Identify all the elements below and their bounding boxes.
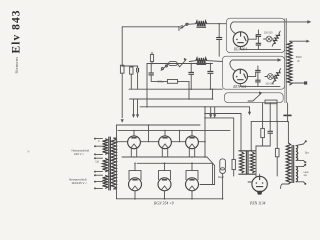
- pentode base: [257, 191, 263, 195]
- svg-text:220 V ≈: 220 V ≈: [74, 152, 84, 156]
- T1 primary group 3: [103, 175, 108, 188]
- wire: [287, 115, 289, 121]
- stage box 3: [224, 93, 283, 103]
- T1 core: [108, 137, 110, 191]
- wire twin stub: [188, 148, 190, 157]
- wire: [206, 23, 219, 25]
- potentiometer arrow: [253, 94, 261, 101]
- wire vertical x205: [204, 107, 206, 157]
- T2 bottom bar: [238, 173, 255, 175]
- resistor R6: [167, 80, 177, 84]
- arrow: [278, 58, 282, 62]
- node junction: [178, 26, 180, 28]
- wire bus y121: [251, 120, 287, 122]
- T3 bottom lead: [281, 184, 289, 189]
- T3 leads lower: [296, 166, 304, 168]
- resistor R7: [232, 159, 235, 169]
- T3 secondary upper: [296, 146, 298, 161]
- wire stub: [191, 191, 193, 199]
- wire top stub: [164, 131, 166, 136]
- V1 electrodes: [240, 32, 242, 37]
- svg-text:PEN 1134: PEN 1134: [249, 201, 266, 205]
- switch S2: [161, 68, 163, 70]
- wire: [287, 121, 289, 143]
- wire grid drop: [218, 24, 220, 38]
- svg-text:spr.: spr.: [304, 174, 308, 177]
- IF transformer core: [284, 18, 286, 103]
- wire vertical x212: [212, 89, 214, 99]
- node: [166, 63, 168, 65]
- T1 secondary leads: [113, 137, 116, 139]
- wire stub: [164, 163, 166, 170]
- rectifier tube V5: [186, 136, 199, 149]
- wire mid leads: [140, 141, 148, 143]
- wire mid lead: [198, 141, 205, 143]
- resistor R1 diagonal: [273, 33, 279, 43]
- svg-text:5000: 5000: [296, 55, 302, 59]
- terminal square: [290, 83, 292, 85]
- wire side lead: [128, 171, 130, 180]
- wire top stub: [133, 131, 135, 136]
- T3 primary winding: [286, 143, 290, 184]
- wire diagonal: [207, 157, 215, 165]
- wire interlink vertical: [148, 125, 150, 142]
- wire feed choke right: [250, 121, 252, 151]
- lamp LP2: [267, 74, 273, 80]
- T3 secondary lower: [296, 167, 298, 182]
- capacitor C8: [149, 72, 154, 74]
- wire coupling arc: [231, 22, 285, 34]
- wire: [240, 47, 242, 50]
- resistor R5 oval: [169, 62, 178, 66]
- svg-text:Regl.: Regl.: [217, 175, 224, 179]
- capacitor C2: [256, 34, 261, 36]
- heater arrow: [214, 107, 216, 116]
- wire: [248, 100, 253, 102]
- resistor R2 diagonal: [274, 71, 280, 81]
- wire: [116, 125, 118, 199]
- capacitor C6 grid: [207, 70, 213, 72]
- ground bar: [283, 114, 291, 116]
- wire: [218, 39, 220, 56]
- wire side lead: [170, 171, 172, 180]
- switch S1: [181, 26, 183, 28]
- svg-text:RGN 354 ×9: RGN 354 ×9: [153, 201, 174, 205]
- wire feed y117.9: [205, 117, 234, 119]
- wire bus y157: [122, 156, 207, 158]
- wire bus y107: [140, 106, 250, 108]
- wire: [214, 165, 216, 184]
- wire fuse to bus: [222, 174, 224, 199]
- rectifier tube V4: [159, 136, 172, 149]
- T3 core: [291, 145, 293, 183]
- wire stub: [164, 191, 166, 199]
- resistor R11 inline: [120, 65, 124, 73]
- capacitor C4: [255, 69, 260, 71]
- capacitor C3: [256, 42, 261, 44]
- wire choke to tube: [259, 174, 261, 176]
- node: [210, 63, 212, 65]
- paper speck: [27, 150, 29, 152]
- resistor R4: [150, 54, 153, 61]
- wire side lead: [158, 171, 160, 180]
- potentiometer P1: [180, 60, 186, 67]
- resistor R9: [275, 148, 279, 156]
- T1 tap leads: [95, 138, 102, 140]
- wire: [188, 23, 196, 26]
- wire: [287, 103, 289, 115]
- wire side lead: [185, 171, 187, 180]
- capacitor C1: [216, 37, 222, 39]
- heater arrow: [210, 107, 212, 116]
- wire stub: [134, 191, 136, 199]
- node: [190, 63, 192, 65]
- svg-text:110/125 V ≈: 110/125 V ≈: [72, 181, 88, 185]
- node: [133, 156, 135, 158]
- rectifier tube V6: [129, 178, 142, 191]
- heater arrow: [137, 99, 139, 116]
- T3 leads upper: [296, 144, 304, 146]
- rectifier tube V3: [128, 136, 141, 149]
- svg-text:100 000: 100 000: [264, 32, 273, 35]
- IF transformer winding: [287, 41, 292, 85]
- pentode V9: [252, 176, 267, 191]
- capacitor C7: [136, 68, 138, 73]
- node: [262, 121, 264, 123]
- wire drop from box3: [262, 103, 264, 122]
- T2 top bar: [238, 150, 255, 152]
- svg-text:REN 904: REN 904: [232, 85, 246, 89]
- svg-text:110: 110: [95, 161, 99, 164]
- arrow to bus: [121, 119, 124, 123]
- resistor R10: [265, 100, 277, 104]
- svg-text:Elv 843: Elv 843: [11, 10, 23, 53]
- choke L2 core: [197, 62, 206, 64]
- resistor R8: [261, 128, 265, 137]
- rectifier tube V8: [186, 178, 199, 191]
- wire vertical x147: [146, 64, 148, 107]
- wire coupling arc 2: [230, 60, 279, 71]
- capacitor C5: [255, 79, 260, 81]
- wire link bar: [159, 170, 171, 172]
- T2 core: [245, 151, 247, 174]
- wire link bar: [186, 170, 198, 172]
- stage box 1: [226, 18, 284, 52]
- wire left vertical upper: [121, 27, 123, 65]
- node: [146, 106, 148, 108]
- T2 right winding: [250, 152, 254, 173]
- wire twin stub: [130, 148, 132, 157]
- svg-text:Spr.: Spr.: [305, 152, 310, 155]
- node: [151, 63, 153, 65]
- arrow output top: [290, 40, 308, 42]
- wire bus y163: [137, 162, 213, 164]
- wire mid lead row1: [117, 141, 128, 143]
- heater arrow single: [249, 107, 251, 113]
- T1 secondary winding: [111, 138, 116, 189]
- wire side lead: [140, 171, 142, 180]
- wire vertical x189: [188, 81, 190, 99]
- wire mid leads: [171, 141, 179, 143]
- lamp LP1: [266, 36, 272, 42]
- node: [134, 198, 136, 200]
- V2 electrodes: [239, 69, 241, 74]
- wire bus y63.5: [147, 63, 213, 65]
- wire interlink vertical: [179, 131, 181, 142]
- node: [188, 98, 190, 100]
- node: [190, 88, 192, 90]
- wire bus y99: [130, 98, 213, 100]
- wire side lead: [197, 171, 199, 180]
- triode V1: [233, 32, 248, 47]
- wire RC link top: [122, 65, 137, 67]
- wire: [256, 145, 270, 147]
- rectifier tube V7: [158, 178, 171, 191]
- wire top horizontal: [122, 26, 179, 28]
- triode V2: [233, 69, 247, 83]
- V1 anode lead: [248, 38, 256, 40]
- node: [218, 23, 220, 25]
- wire twin stub: [161, 148, 163, 157]
- wire: [248, 181, 252, 183]
- capacitor C10: [268, 130, 273, 132]
- resistor R3: [130, 67, 133, 74]
- capacitor C9: [188, 71, 194, 73]
- wire feed y113.5: [205, 113, 241, 115]
- wire: [189, 60, 196, 63]
- T2 left winding: [239, 152, 243, 173]
- wire bus y125: [117, 124, 201, 126]
- fuse Regl circle: [220, 168, 226, 174]
- T1 primary group 2: [103, 158, 108, 172]
- stage box 2: [222, 56, 284, 89]
- wire stub: [191, 163, 193, 170]
- svg-text:Siemens: Siemens: [14, 57, 19, 74]
- fuse Regl body: [220, 159, 226, 170]
- choke L2 winding: [196, 58, 207, 64]
- V2 anode lead: [248, 75, 256, 77]
- node: [164, 163, 166, 165]
- wire: [239, 84, 241, 87]
- wire left vertical lower: [121, 73, 123, 118]
- T1 primary group 1: [103, 139, 108, 155]
- choke L1 core: [197, 25, 206, 27]
- choke L1 winding: [196, 21, 207, 27]
- wire bus bottom y199: [117, 198, 223, 200]
- wire bus y89: [129, 88, 222, 90]
- wire link bar: [129, 170, 141, 172]
- arrow to transformer: [285, 21, 310, 23]
- wire stub: [134, 163, 136, 170]
- wire bus y130.6: [118, 130, 230, 132]
- wire top stub: [191, 131, 193, 136]
- heater arrow: [133, 99, 135, 116]
